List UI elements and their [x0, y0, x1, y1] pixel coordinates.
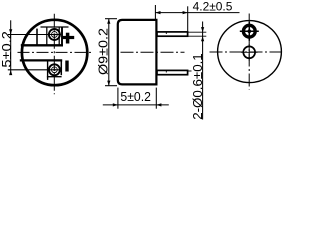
bottom screw terminal — [49, 64, 60, 75]
horizontal centerline — [121, 51, 185, 53]
top box right vertical — [61, 27, 63, 45]
pin1 edge extension lines and arrowheads — [189, 27, 207, 41]
arrowhead bottom (points up to y=69.8) — [9, 70, 12, 75]
plus polarity mark — [62, 33, 74, 44]
dimension 2-Ø0.6±0.1 (pins) — [202, 22, 204, 120]
dimension Ø9±0.2 (extension lines, dimension line, arrowheads) — [105, 19, 117, 86]
svg-text:4.2±0.5: 4.2±0.5 — [193, 0, 233, 13]
svg-text:5±0.2: 5±0.2 — [0, 31, 14, 68]
svg-text:2-Ø0.6±0.1: 2-Ø0.6±0.1 — [190, 53, 205, 120]
arrowhead top (points down to y=34.5) — [9, 29, 12, 34]
svg-text:5±0.2: 5±0.2 — [120, 89, 150, 104]
thick chord lower — [20, 59, 62, 61]
top screw terminal — [49, 29, 60, 40]
housing outer circle — [22, 20, 87, 85]
pin 1 (top) — [157, 32, 188, 37]
horizontal centerline — [18, 51, 92, 53]
top terminal crosshair / extension line — [8, 34, 61, 36]
outer circle — [218, 21, 282, 83]
channel verticals lower segment — [48, 60, 62, 80]
bottom box bottom line — [47, 76, 62, 78]
vertical centerline — [248, 14, 250, 90]
negative pin pad: open ring with crosshair — [241, 44, 258, 61]
horizontal centerline — [210, 51, 282, 53]
pin2 stub — [188, 70, 192, 72]
pin 2 (bottom) — [157, 70, 188, 75]
svg-text:Ø9±0.2: Ø9±0.2 — [96, 28, 111, 75]
dimension 4.2±0.5 (extension lines, dimension line, arrowheads) — [155, 5, 239, 37]
vertical centerline — [53, 14, 55, 95]
top box left vertical — [36, 29, 38, 46]
top terminal plate line — [41, 26, 69, 28]
bottom terminal crosshair / extension line — [8, 69, 60, 71]
housing body — [118, 20, 157, 85]
positive pin pad: filled disc with white cross — [240, 22, 259, 41]
dimension 5±0.2 bottom (extension lines, dimension line, arrowheads) — [103, 88, 169, 109]
minus polarity mark (vertical bar) — [65, 61, 68, 72]
thick chord upper — [21, 44, 63, 46]
channel verticals upper segment — [47, 27, 59, 45]
dimension line 5±0.2 (left) — [10, 20, 12, 74]
